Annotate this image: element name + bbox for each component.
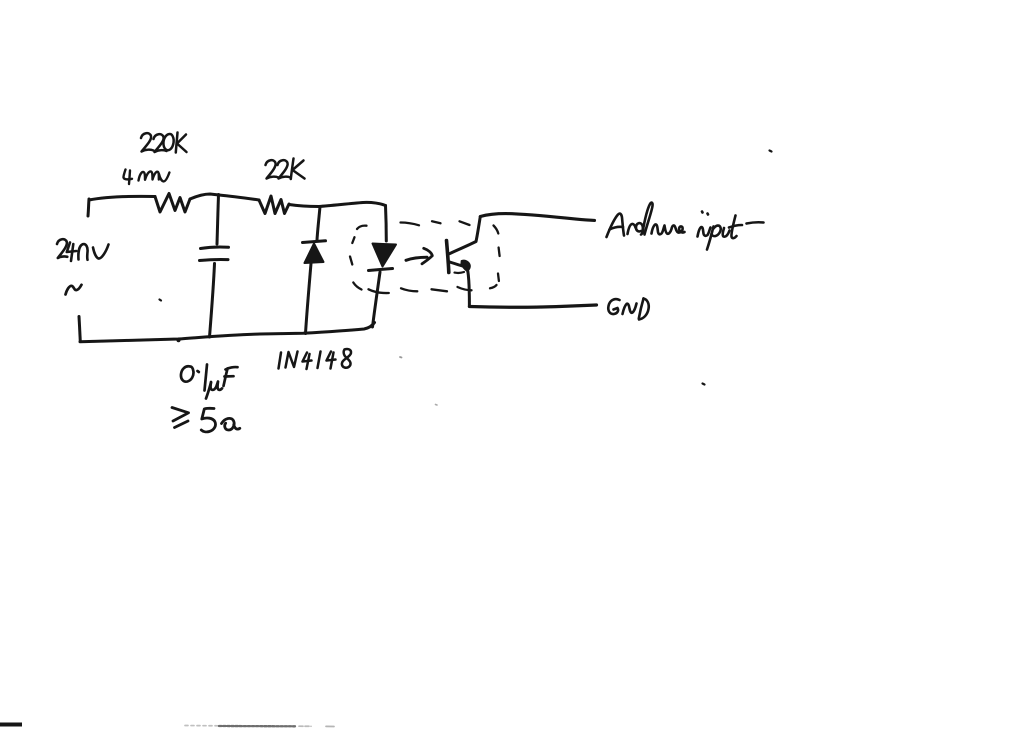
bottom edge scan artifact bar bbox=[0, 723, 22, 727]
phototransistor Q1 emitter bbox=[449, 262, 463, 267]
resistor R2 22K zigzag bbox=[259, 196, 289, 214]
diode D1 bottom lead bbox=[306, 264, 312, 334]
phototransistor Q1 collector bbox=[449, 217, 481, 255]
wire node A to R2 bbox=[219, 195, 259, 200]
junction blob on bottom wire bbox=[176, 338, 180, 342]
label 240V bbox=[57, 239, 109, 261]
AC tilde symbol bbox=[66, 285, 82, 295]
diode D1 triangle (filled) bbox=[305, 244, 324, 264]
diode D1 cathode bar bbox=[303, 241, 326, 243]
capacitor C1 bottom plate bbox=[200, 259, 229, 260]
bottom edge scan artifact dashes bbox=[185, 725, 218, 727]
resistor R1 220K zigzag bbox=[155, 194, 190, 213]
AC source 240V bottom terminal stub bbox=[79, 317, 80, 342]
label 220K bbox=[141, 133, 187, 153]
capacitor C1 bottom lead bbox=[210, 264, 215, 338]
LED triangle (filled, pointing down) bbox=[373, 244, 397, 267]
scan speck top right bbox=[770, 151, 772, 152]
wire R2 to diode D1 junction bbox=[289, 205, 319, 207]
capacitor C1 top lead bbox=[217, 195, 219, 245]
phototransistor Q1 emitter arrowhead (filled) bbox=[461, 261, 470, 271]
phototransistor Q1 base bar bbox=[447, 241, 449, 273]
LED anode lead from top wire bbox=[384, 206, 388, 242]
capacitor C1 top plate bbox=[201, 247, 229, 248]
wire diode junction to LED branch corner bbox=[319, 202, 386, 206]
scan speck left of capacitor bbox=[160, 300, 162, 301]
scan speck near 1N4148 bbox=[400, 356, 402, 359]
AC source 240V top terminal stub bbox=[88, 199, 89, 216]
scan speck faint lower middle bbox=[436, 404, 438, 407]
wire R1 to node A bbox=[190, 194, 219, 199]
wire top from source to R1 bbox=[89, 196, 155, 200]
scan speck below Arduino label bbox=[703, 384, 705, 385]
optocoupler arrow shaft bbox=[406, 257, 427, 260]
emitter lead down to GND wire bbox=[468, 271, 470, 307]
optocoupler arrow head bbox=[422, 248, 432, 263]
label 1N4148 bbox=[279, 349, 352, 369]
optocoupler U1 dashed outline (hand dashes) bbox=[350, 221, 500, 293]
label 0.1uF bbox=[181, 365, 238, 399]
LED cathode bar bbox=[369, 269, 393, 271]
label 4mA (written 4mv) bbox=[123, 170, 169, 185]
LED cathode lead bbox=[373, 272, 381, 327]
label GND (cursive) bbox=[608, 299, 648, 320]
wire emitter to GND label bbox=[469, 305, 596, 307]
diode D1 top lead bbox=[317, 207, 320, 241]
wire collector to Arduino input label bbox=[480, 214, 594, 221]
bottom return wire bbox=[80, 323, 375, 342]
label Arduino input (cursive) bbox=[607, 203, 764, 250]
label >= 50 voltage rating bbox=[172, 408, 240, 432]
emitter arrowhead tail flick bbox=[455, 271, 465, 274]
label 22K bbox=[266, 159, 305, 180]
